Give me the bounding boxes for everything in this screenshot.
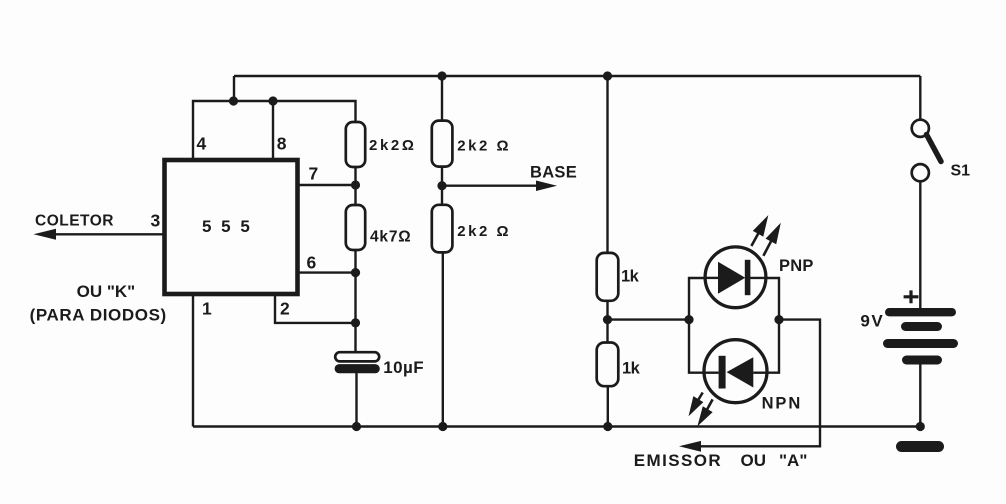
wire pin6 <box>296 271 356 273</box>
LED D1 PNP circle <box>705 247 766 308</box>
svg-text:2k2Ω: 2k2Ω <box>369 137 416 154</box>
LED D1 triangle <box>718 262 745 294</box>
switch S1 lower contact <box>912 164 929 181</box>
node battery / bottom rail <box>916 422 925 431</box>
switch S1 upper contact <box>912 120 929 137</box>
resistor R4 2k2 <box>432 205 453 253</box>
wire between R1 and R2 <box>354 167 356 205</box>
arrow BASE <box>536 181 557 192</box>
node cap / bottom rail <box>352 422 361 431</box>
wire pin4 rail <box>193 101 356 160</box>
resistor R1 2k2 <box>346 122 365 167</box>
node col2 / bottom rail <box>438 422 447 431</box>
wire between R3 and R4 <box>441 167 443 205</box>
LED D1 light arrow 1 <box>751 219 766 246</box>
resistor R2 4k7 <box>346 205 365 250</box>
svg-text:10µF: 10µF <box>383 358 424 377</box>
svg-text:COLETOR: COLETOR <box>35 213 114 230</box>
wire battery to bottom rail <box>919 364 921 427</box>
node pin8 junction <box>268 96 277 105</box>
svg-text:1k: 1k <box>621 268 640 286</box>
node pin4/top-drop junction <box>229 96 238 105</box>
node BASE junction <box>437 181 446 190</box>
svg-text:OU: OU <box>741 451 767 470</box>
svg-text:7: 7 <box>309 164 319 184</box>
node 1k junction <box>603 315 612 324</box>
wire pin3 <box>52 233 165 235</box>
wire switch to battery <box>919 181 921 309</box>
LED D2 triangle <box>727 357 754 387</box>
LED D1 cathode bar <box>745 260 751 295</box>
capacitor C1 bottom plate <box>335 364 380 373</box>
wire emitter out <box>696 320 820 447</box>
wire PNP leads <box>705 277 719 279</box>
wire node mid to LEDs <box>608 318 690 320</box>
arrow EMISSOR <box>679 441 701 452</box>
svg-text:S1: S1 <box>951 163 971 180</box>
battery B1 plate 1 long <box>885 308 956 316</box>
LED D1 light arrow 2 <box>763 227 778 256</box>
LED D2 NPN circle <box>704 340 767 403</box>
capacitor C1 top plate <box>335 352 379 361</box>
wire pin8 <box>272 101 274 160</box>
node LED left bracket <box>684 315 693 324</box>
battery B1 plate 2 short <box>901 322 942 331</box>
svg-text:NPN: NPN <box>762 395 803 413</box>
wire below R6 to bottom rail <box>607 386 609 426</box>
battery B1 plus <box>904 290 919 303</box>
node top rail / col2 <box>437 71 446 80</box>
svg-text:EMISSOR: EMISSOR <box>634 451 722 470</box>
resistor R5 1k <box>597 253 619 301</box>
node pin6 <box>351 268 360 277</box>
svg-text:BASE: BASE <box>530 164 577 182</box>
svg-text:"A": "A" <box>779 451 807 470</box>
svg-text:2k2 Ω: 2k2 Ω <box>457 138 511 155</box>
wire pin1 <box>192 293 194 427</box>
svg-text:(PARA DIODOS): (PARA DIODOS) <box>30 306 167 325</box>
svg-text:2k2 Ω: 2k2 Ω <box>457 223 511 240</box>
svg-text:OU "K": OU "K" <box>77 282 136 301</box>
LED D2 light arrow 2 <box>700 399 713 422</box>
battery B1 plate 3 long <box>883 339 958 348</box>
wire pin2 <box>275 293 356 323</box>
node LED right bracket <box>774 315 783 324</box>
svg-text:6: 6 <box>307 253 317 273</box>
node pin2 <box>351 318 360 327</box>
battery B1 plate 4 short <box>902 356 942 365</box>
node top rail / col3 <box>603 71 612 80</box>
wire top-left drop <box>233 76 235 101</box>
svg-text:4: 4 <box>197 134 207 154</box>
wire NPN leads <box>704 372 719 374</box>
switch S1 lever <box>927 135 942 162</box>
node col3 / bottom rail <box>603 422 612 431</box>
node pin7 / R1-R2 <box>351 180 360 189</box>
resistor R3 2k2 <box>432 121 453 167</box>
IC U1 555 <box>165 160 298 294</box>
wire col3 top <box>606 76 608 253</box>
svg-text:1k: 1k <box>622 360 641 378</box>
wire between R5 and R6 <box>606 301 608 343</box>
svg-text:3: 3 <box>151 211 161 231</box>
battery B1 bottom terminal blob <box>896 441 944 452</box>
wire col2 top <box>441 76 443 121</box>
svg-text:4k7Ω: 4k7Ω <box>370 229 412 246</box>
LED D2 light arrow 1 <box>691 393 703 413</box>
svg-text:8: 8 <box>277 134 287 154</box>
svg-text:5 5 5: 5 5 5 <box>202 217 252 236</box>
wire below R2 to capacitor <box>354 250 356 352</box>
svg-text:9V: 9V <box>860 312 884 331</box>
arrow COLETOR <box>34 229 57 240</box>
svg-text:2: 2 <box>280 299 290 319</box>
wire top rail V+ <box>234 75 920 77</box>
wire LED right bracket <box>767 278 780 373</box>
resistor R6 1k <box>597 343 619 387</box>
wire LED left bracket <box>689 278 705 373</box>
wire bottom rail <box>193 425 920 427</box>
svg-text:PNP: PNP <box>779 257 814 275</box>
wire switch top <box>919 76 921 120</box>
svg-text:1: 1 <box>202 299 212 319</box>
wire capacitor to bottom rail <box>355 372 357 427</box>
wire below R4 to bottom rail <box>442 252 444 426</box>
LED D2 cathode bar <box>719 356 726 389</box>
wire pin7 <box>296 184 356 186</box>
wire BASE <box>442 184 540 186</box>
